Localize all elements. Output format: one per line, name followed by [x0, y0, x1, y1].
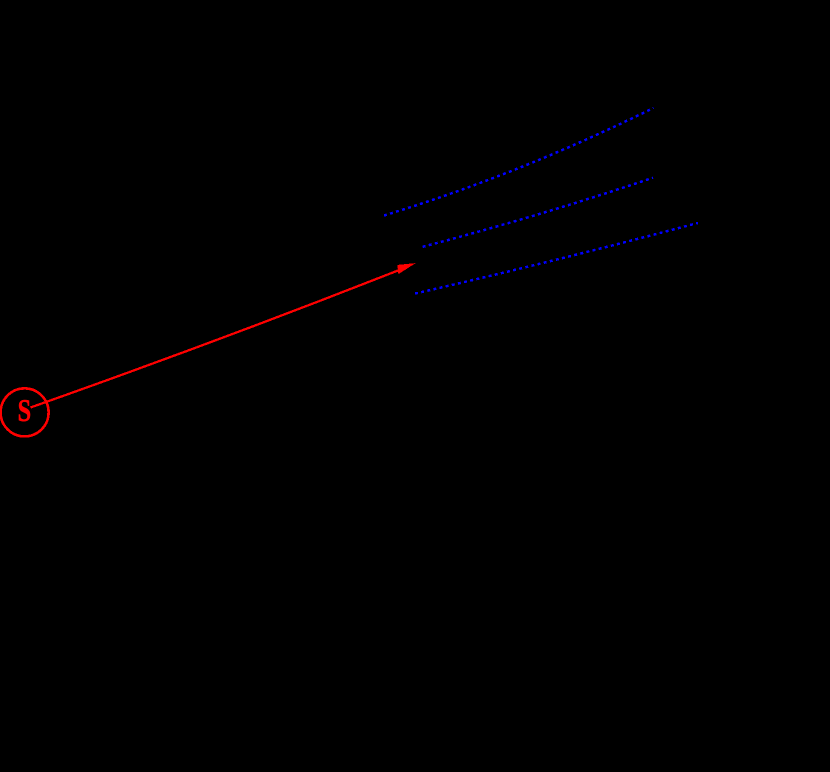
source circle S: [1, 388, 49, 436]
dotted ray 1 (top, blue): [384, 108, 654, 216]
ray from S (red arrow): [31, 263, 416, 407]
dotted ray 3 (bottom, blue): [415, 223, 698, 294]
dotted ray 2 (middle, blue): [423, 178, 653, 247]
label S: [18, 392, 32, 428]
svg-text:S: S: [18, 392, 32, 428]
